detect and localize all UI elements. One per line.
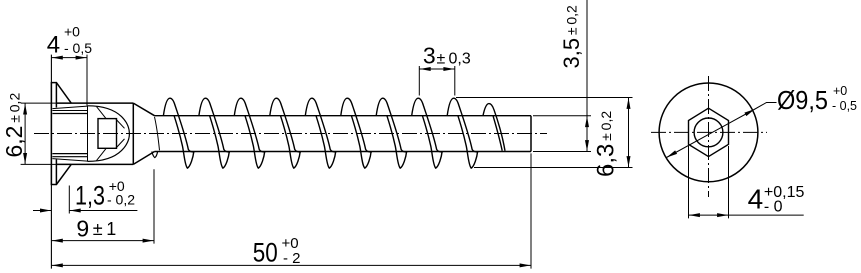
flange bottom edge — [51, 184, 57, 186]
thread turn 2 top crest and leading flank — [199, 98, 230, 152]
flange cone lower slant — [56, 164, 71, 184]
dimension 50 right arrow — [520, 263, 531, 267]
end view vertical centerline — [708, 76, 710, 197]
centerline of screw (side view) — [34, 133, 547, 135]
thread turn 8 top crest and leading flank — [412, 98, 443, 152]
thread turn 5 trailing flank and bottom crest — [316, 116, 336, 168]
dimension 3,5 top arrow — [585, 116, 589, 127]
dimension 6,3 top extension line — [456, 97, 633, 99]
svg-text:50: 50 — [253, 237, 278, 267]
dimension 3 right extension line — [454, 66, 456, 96]
flange top edge — [51, 82, 57, 84]
dimension 4 across flats left arrow — [689, 213, 700, 217]
dimension 4 across flats right arrow — [717, 213, 728, 217]
dimension 9 line — [51, 240, 154, 242]
dimension 50 left arrow — [52, 263, 63, 267]
svg-text:6,3 ± 0,2: 6,3 ± 0,2 — [593, 111, 620, 177]
dimension 50 right extension line — [530, 153, 532, 268]
dimension 3,5 bottom extension line — [533, 151, 591, 153]
head end face — [132, 103, 134, 164]
dimension 3 line — [419, 68, 455, 70]
dimension 3 left extension line — [418, 66, 420, 96]
svg-text:- 2: - 2 — [283, 250, 301, 267]
svg-text:- 0,5: - 0,5 — [832, 99, 857, 113]
dimension 50 line — [51, 264, 531, 266]
svg-text:6,2 ± 0,2: 6,2 ± 0,2 — [1, 93, 27, 158]
svg-text:± 0,3: ± 0,3 — [437, 50, 471, 67]
thread start notch at cone bottom — [152, 152, 158, 158]
socket cone facet lower-right diagonal — [116, 139, 125, 148]
socket cone facet upper-left diagonal — [97, 107, 107, 119]
dimension 4 right arrow — [76, 56, 87, 60]
diameter leader line — [667, 103, 777, 158]
hex socket upper corner edge — [52, 110, 87, 112]
shaft core bottom line — [155, 151, 532, 153]
svg-text:+0: +0 — [64, 24, 80, 40]
dimension 4 across flats line — [689, 214, 804, 216]
dimension 6,3 bottom arrow — [627, 156, 631, 167]
diameter leader upper-right arrow — [744, 107, 756, 116]
socket bottom dome arc — [88, 106, 130, 162]
hex socket upper flat edge — [52, 113, 87, 115]
socket pilot hole circle — [694, 118, 723, 147]
thread turn 8 trailing flank and bottom crest — [422, 116, 442, 168]
thread turn 3 trailing flank and bottom crest — [245, 116, 265, 168]
svg-text:3,5 ± 0,2: 3,5 ± 0,2 — [559, 5, 584, 69]
socket bottom flat rectangle — [98, 119, 117, 149]
svg-text:Ø9,5: Ø9,5 — [777, 85, 828, 115]
end view horizontal centerline — [651, 131, 767, 133]
6,2 extension line top — [21, 102, 72, 104]
flange back face upper segment — [55, 83, 57, 108]
dimension 6,2 line — [24, 103, 26, 164]
svg-text:4: 4 — [47, 32, 60, 59]
svg-text:- 0,5: - 0,5 — [64, 40, 92, 56]
thread turn 7 trailing flank and bottom crest — [387, 116, 407, 168]
svg-text:+0: +0 — [833, 84, 847, 98]
thread turn 9 top crest and leading flank — [447, 98, 478, 152]
dimension 4 line — [51, 57, 87, 59]
flange back face lower segment — [55, 160, 57, 185]
hex socket lower flat edge — [52, 153, 87, 155]
head cylinder bottom line — [57, 163, 134, 165]
dimension 9 right extension line — [153, 169, 155, 243]
thread turn 4 trailing flank and bottom crest — [281, 116, 301, 168]
socket cone facet upper-right diagonal — [116, 119, 125, 128]
dimension 9 right arrow — [143, 239, 154, 243]
thread turn 6 trailing flank and bottom crest — [351, 116, 371, 168]
hex socket upper chamfer slant — [52, 106, 87, 109]
dimension 4 across flats right extension line — [728, 146, 730, 218]
dimension 4 left arrow — [52, 56, 63, 60]
thread turn 2 trailing flank and bottom crest — [210, 116, 230, 168]
dimension 9 left arrow — [52, 239, 63, 243]
flange front face thick segment — [50, 83, 52, 185]
thread turn 5 top crest and leading flank — [305, 98, 336, 152]
thread turn 6 top crest and leading flank — [341, 98, 372, 152]
thread turn 1 trailing flank and bottom crest — [174, 116, 194, 168]
dimension 3,5 bottom arrow — [585, 140, 589, 151]
svg-text:- 0: - 0 — [764, 199, 783, 216]
dimension 1,3 left tail line — [33, 210, 51, 212]
flange cone upper slant — [56, 83, 71, 104]
head outline circle — [659, 83, 758, 182]
flange front face with dimension extension line — [50, 55, 52, 269]
thread turn 10 trailing flank — [493, 116, 502, 151]
hex socket lower corner edge — [52, 156, 87, 158]
thread turn 7 top crest and leading flank — [376, 98, 407, 152]
6,2 extension line bottom — [21, 163, 72, 165]
neck cone lower slant — [133, 152, 154, 165]
shaft end face — [530, 116, 532, 152]
dimension 6,3 bottom extension line — [474, 167, 633, 169]
thread turn 1 top crest and leading flank — [163, 98, 194, 152]
dimension 6,2 bottom arrow — [23, 153, 27, 164]
dimension 6,3 line — [628, 98, 630, 168]
svg-text:- 0,2: - 0,2 — [107, 192, 135, 208]
svg-text:4: 4 — [748, 184, 764, 215]
dimension 3 left arrow — [420, 67, 431, 71]
dimension 6,2 top arrow — [23, 104, 27, 115]
dimension 3,5 line — [586, 0, 588, 152]
thread turn 4 top crest and leading flank — [270, 98, 301, 152]
hex socket hexagon — [689, 108, 729, 156]
dimension 1,3 right arrow (outside pointing left) — [70, 209, 81, 213]
svg-text:9 ± 1: 9 ± 1 — [76, 215, 116, 241]
neck cone upper slant — [133, 103, 154, 116]
svg-text:3: 3 — [423, 42, 436, 68]
dimension 4 right extension line — [86, 55, 88, 106]
hex socket end vertical — [87, 106, 89, 161]
svg-text:1,3: 1,3 — [75, 180, 105, 210]
dimension 1,3 right extension line — [68, 186, 70, 214]
socket cone facet lower-left diagonal — [97, 149, 107, 161]
thread turn 10 short top crest and flank — [483, 104, 505, 151]
dimension 3 right arrow — [443, 67, 454, 71]
thread turn 9 trailing flank and bottom crest — [458, 116, 478, 168]
dimension 3,5 top extension line — [533, 115, 591, 117]
dimension 4 across flats left extension line — [688, 146, 690, 218]
dimension 6,3 top arrow — [627, 98, 631, 109]
dimension 1,3 text underline — [69, 210, 137, 212]
diameter leader lower-left arrow — [666, 150, 678, 159]
hex socket lower chamfer slant — [52, 159, 87, 162]
thread turn 3 top crest and leading flank — [234, 98, 265, 152]
shaft core top line — [155, 115, 532, 117]
head cylinder top line — [57, 102, 134, 104]
thread start flank at neck — [155, 117, 160, 151]
dimension 1,3 left arrow (outside pointing right) — [40, 209, 51, 213]
